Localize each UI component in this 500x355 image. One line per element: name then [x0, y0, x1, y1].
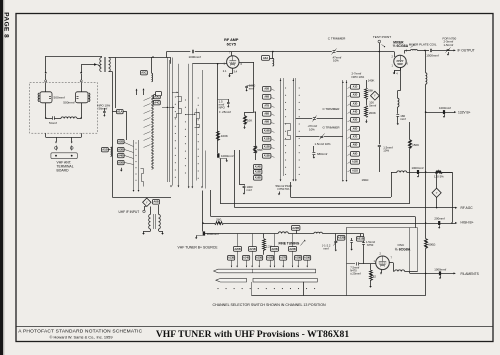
svg-text:A5D: A5D — [353, 119, 358, 122]
capacitor 1000mmf coupling — [189, 50, 202, 59]
wire terminal bus — [46, 133, 82, 137]
capacitor 1.5mmf NPO — [218, 99, 232, 114]
svg-text:mmf: mmf — [400, 117, 406, 121]
ground uhf-t left — [142, 229, 150, 235]
svg-text:HIGH B+: HIGH B+ — [461, 221, 474, 225]
label MIXER — [393, 40, 409, 48]
wire FILAMENTS — [410, 272, 456, 274]
resistor 200K — [365, 99, 376, 123]
label RF AMP 6CY5 — [224, 38, 239, 46]
ground uhf-t right — [159, 229, 164, 235]
svg-text:A19B: A19B — [304, 257, 311, 260]
svg-text:A4B: A4B — [118, 154, 123, 158]
coil A4A — [273, 52, 274, 67]
svg-text:1000mmf: 1000mmf — [207, 232, 219, 236]
label MIXER PLATE COIL — [409, 43, 437, 47]
label 140K — [368, 78, 375, 82]
svg-text:A12B: A12B — [264, 146, 270, 149]
grid capacitor 7.5mmf — [350, 262, 376, 275]
capacitor osc pad — [350, 238, 353, 251]
wire y51.5 riser — [166, 52, 168, 58]
wire uhf-left top — [45, 74, 47, 92]
switch boxes bank3 column — [263, 87, 275, 159]
capacitor 680mmf — [312, 152, 327, 158]
RF coil taps — [144, 98, 151, 148]
transformer T1 secondary — [109, 58, 111, 72]
tube V1 RF amp 6CY5 — [227, 56, 239, 68]
UHF crystal mixer right — [63, 92, 90, 105]
svg-text:A9D: A9D — [353, 153, 358, 156]
uhf if transformer secondary — [159, 205, 161, 229]
svg-text:OSC: OSC — [398, 243, 405, 247]
wafer2 lines — [189, 64, 203, 187]
wire y172 to x452 — [442, 172, 453, 222]
svg-text:3,4: 3,4 — [234, 70, 238, 74]
wire mixer-left bottom — [46, 103, 53, 119]
svg-text:UHF IF INPUT: UHF IF INPUT — [119, 210, 140, 214]
wire T1 sec bottom — [109, 72, 113, 148]
svg-text:N750 5%: N750 5% — [278, 187, 290, 191]
svg-text:A4D: A4D — [353, 111, 358, 114]
wire uhf-if bus — [112, 147, 171, 198]
switch boxes bank4 column — [348, 85, 360, 174]
svg-text:6CY5: 6CY5 — [227, 42, 236, 46]
label 2-7mmf NPO — [352, 72, 365, 79]
svg-text:82: 82 — [373, 274, 377, 278]
label 100 5mmf — [369, 101, 376, 108]
svg-text:G TRIMMER: G TRIMMER — [323, 125, 341, 129]
vertical x391 — [391, 172, 393, 197]
wire bottom bus — [252, 282, 426, 296]
label 132V B+ — [458, 111, 471, 115]
node uhf-d — [80, 72, 82, 74]
svg-text:A11B: A11B — [264, 138, 270, 141]
svg-text:A23B: A23B — [289, 248, 296, 251]
osc injection — [396, 68, 406, 126]
wafer1 contact arrow a — [162, 107, 175, 109]
resistor 150K — [409, 122, 420, 204]
switch shaft bar 2b — [253, 278, 317, 282]
trimmer capacitor C-npo — [103, 108, 106, 117]
svg-text:© Howard W. Sams & Co., Inc. 1: © Howard W. Sams & Co., Inc. 1959 — [50, 334, 113, 339]
svg-text:56K: 56K — [368, 89, 373, 93]
svg-text:½ 6CG8A: ½ 6CG8A — [393, 44, 409, 48]
label 1000mmf y168 — [412, 166, 424, 170]
svg-text:VHF TUNER B+ SOURCE: VHF TUNER B+ SOURCE — [178, 245, 219, 249]
trimmer output — [446, 48, 451, 56]
label 160 ohm — [362, 178, 370, 182]
resistor 600 ohm — [425, 223, 437, 296]
svg-text:A5B: A5B — [264, 88, 269, 91]
svg-text:500mmf: 500mmf — [63, 100, 74, 104]
svg-text:NPO 10%: NPO 10% — [352, 75, 365, 79]
switch box A4A — [262, 56, 273, 61]
wafer1 rotor profile — [175, 97, 182, 118]
resistor 2.2K — [263, 234, 272, 255]
channel switch boxes lower row — [228, 256, 311, 270]
svg-text:A2D: A2D — [353, 94, 358, 97]
resistor 82 — [369, 264, 376, 288]
svg-text:500mmf: 500mmf — [54, 95, 65, 99]
svg-text:FINE TUNING: FINE TUNING — [279, 242, 300, 246]
wire shaft to bus — [303, 282, 305, 296]
svg-text:200K: 200K — [369, 111, 376, 115]
svg-text:A10B: A10B — [264, 130, 270, 133]
label FINE TUNING — [279, 240, 306, 246]
svg-text:±.25mmf: ±.25mmf — [350, 272, 361, 276]
svg-text:1500mmf: 1500mmf — [426, 54, 439, 58]
wire uhf-left riser — [45, 56, 47, 73]
antenna wafer rotor — [133, 169, 144, 192]
wire L4 y216.5 — [211, 190, 416, 228]
wafer3 lines — [280, 78, 300, 180]
svg-text:A7B: A7B — [264, 105, 269, 108]
svg-text:A22B: A22B — [338, 236, 345, 240]
B+ coil L3 — [426, 50, 427, 223]
RF coil spring — [152, 96, 154, 170]
capacitor 1000mmf plate — [245, 84, 255, 92]
svg-text:A6B: A6B — [264, 96, 269, 99]
svg-text:1000mmf: 1000mmf — [189, 55, 202, 59]
label NPO 10% 56mmf — [98, 103, 111, 110]
crystal diamond mixer — [371, 91, 380, 100]
wafer2 bottom arrows — [188, 187, 203, 189]
svg-text:A2B: A2B — [118, 140, 123, 144]
capacitor 1500mmf — [426, 49, 439, 58]
svg-text:A6D: A6D — [353, 128, 358, 131]
tube V3 oscillator — [374, 253, 393, 270]
svg-text:5mmf: 5mmf — [369, 104, 376, 108]
node y172 — [425, 171, 427, 173]
switch box A6B — [153, 200, 160, 205]
node rf-top — [152, 56, 154, 58]
svg-text:Y: Y — [436, 191, 438, 195]
node plate-56k — [254, 111, 255, 112]
osc verticals — [410, 228, 418, 274]
svg-text:FILAMENTS: FILAMENTS — [461, 272, 480, 276]
svg-text:A1B: A1B — [102, 148, 107, 152]
label FILAMENTS — [461, 272, 480, 276]
wire grid drop — [217, 64, 219, 153]
wire plate to 10K — [245, 84, 254, 116]
test point line — [379, 52, 381, 145]
wire A1A — [112, 111, 126, 140]
wire L2 y203.7 — [220, 159, 410, 204]
svg-text:A16B: A16B — [267, 257, 274, 260]
UHF crystal mixer left — [38, 92, 65, 103]
svg-text:A15B: A15B — [256, 257, 263, 260]
resistor 10K — [243, 116, 252, 129]
svg-text:mmf: mmf — [247, 188, 253, 192]
label UHF IF INPUT — [119, 210, 146, 214]
wafer1 lines — [168, 58, 186, 186]
wire V2 plate top — [405, 50, 411, 53]
svg-text:680mmf: 680mmf — [317, 152, 328, 156]
svg-text:± .25mmf: ± .25mmf — [219, 110, 231, 114]
wire top horizontal to T1 — [46, 56, 102, 58]
svg-text:A20B: A20B — [234, 248, 241, 251]
feedthrough vhf b+ — [203, 231, 219, 236]
svg-text:VHF TUNER with UHF Provisions: VHF TUNER with UHF Provisions - WT86X81 — [156, 329, 350, 340]
wire fine tuning bus — [205, 232, 364, 234]
svg-text:A13B: A13B — [228, 257, 235, 260]
svg-text:CHANNEL SELECTOR SWITCH SHOWN: CHANNEL SELECTOR SWITCH SHOWN IN CHANNEL… — [213, 303, 326, 307]
label 1-2.2mmf — [322, 243, 331, 250]
svg-text:Y: Y — [146, 200, 148, 204]
wire V1 grid — [192, 63, 226, 65]
wafer1 contact arrow b — [172, 92, 178, 94]
wire b+ horizontal — [203, 218, 224, 225]
switch shaft bar 2a — [216, 278, 247, 282]
svg-text:A5B: A5B — [118, 161, 123, 165]
svg-text:C TRIMMER: C TRIMMER — [323, 107, 341, 111]
coupling wire y51.5 left — [167, 51, 191, 53]
switch boxes A2B-A5B column — [118, 140, 125, 165]
svg-text:IF OUTPUT: IF OUTPUT — [458, 49, 475, 53]
switch box A1B — [102, 148, 111, 152]
crystal diode diamond D1 — [143, 198, 151, 206]
feedthrough 200mmf — [434, 216, 445, 228]
svg-text:A3D: A3D — [353, 103, 358, 106]
wire drop left — [55, 137, 57, 143]
svg-text:56mmf: 56mmf — [99, 106, 108, 110]
trimmer C top — [332, 49, 342, 63]
svg-text:1000mmf: 1000mmf — [439, 106, 451, 110]
wire coil to node — [417, 50, 429, 52]
label 1.5mmf 10% — [315, 142, 332, 146]
inductor L-uhf — [54, 117, 81, 119]
node agc cross — [425, 207, 453, 224]
RF osc coil upper — [152, 57, 153, 82]
svg-text:120 5%: 120 5% — [434, 175, 444, 179]
wire agc bus y172 — [391, 171, 452, 173]
svg-text:10%: 10% — [309, 127, 315, 131]
svg-text:A1D: A1D — [353, 86, 358, 89]
ground vhf b+ — [195, 236, 203, 240]
svg-text:TEST POINT: TEST POINT — [373, 35, 391, 39]
svg-text:A7D: A7D — [353, 136, 358, 139]
wire L1 y197 — [291, 182, 392, 198]
detent dots row — [217, 288, 315, 289]
binder black edge bar — [0, 0, 3, 355]
wafer1 bottom arrows — [170, 186, 179, 188]
switch box A20B — [292, 226, 300, 234]
svg-text:560: 560 — [216, 218, 221, 222]
node V1 grid — [217, 63, 219, 65]
feedthrough 1000mmf b+ — [439, 106, 451, 118]
svg-text:A15B: A15B — [255, 171, 261, 174]
feedthrough y172 — [417, 170, 419, 178]
node mixer out — [424, 50, 426, 52]
osc plate coil — [389, 263, 417, 272]
label GO 1.5mmf — [362, 234, 375, 264]
ground feedthrough — [220, 159, 228, 163]
svg-text:A8D: A8D — [353, 144, 358, 147]
wire L3 riser — [234, 150, 236, 208]
wires bank fan — [125, 143, 134, 165]
feedthrough capacitor 1000mmf — [217, 153, 234, 158]
switch shaft bar 1 — [214, 269, 316, 273]
antenna coil L1 — [111, 147, 113, 157]
svg-text:A5C: A5C — [141, 71, 146, 75]
resistor 56K — [254, 112, 263, 160]
resistor 56K bank4 — [365, 80, 374, 100]
wire trimmer row1 — [296, 118, 343, 120]
label C TRIMMER mid — [323, 107, 341, 111]
trimmer C mid — [313, 116, 317, 122]
wafer2 rotor profile — [195, 109, 206, 189]
uhf if transformer core — [154, 214, 156, 229]
svg-text:1000mmf: 1000mmf — [221, 154, 234, 158]
node b560 — [202, 222, 204, 224]
svg-text:A20B: A20B — [292, 226, 299, 230]
wire grid bus y57 — [102, 57, 171, 64]
svg-text:2·1: 2·1 — [223, 69, 227, 73]
wire T1 sec top — [109, 58, 116, 109]
terminal jack left — [55, 145, 58, 150]
label IF OUTPUT — [458, 49, 475, 53]
feedthrough 1000mmf fil — [434, 267, 446, 279]
label .27mmf — [308, 124, 318, 131]
trimmer G — [320, 134, 325, 140]
ground antenna bank — [120, 168, 123, 172]
wire y51.5 right — [195, 51, 231, 53]
svg-text:RF AGC: RF AGC — [461, 206, 474, 210]
cathode ground osc — [380, 270, 382, 275]
svg-text:C TRIMMER: C TRIMMER — [328, 36, 346, 40]
capacitor 5mmf — [49, 116, 57, 125]
wire uhf-right top — [80, 74, 82, 92]
diamond agc — [432, 172, 441, 208]
wire HIGH B+ — [223, 222, 457, 224]
svg-text:N750: N750 — [367, 243, 374, 247]
svg-text:A22B: A22B — [271, 248, 278, 251]
contact arrows up — [136, 88, 145, 95]
wire mixer-right bottom — [81, 103, 83, 118]
svg-text:½ 6CG8A: ½ 6CG8A — [395, 248, 411, 252]
svg-text:5mmf: 5mmf — [49, 121, 57, 125]
svg-text:132V B+: 132V B+ — [458, 111, 471, 115]
svg-text:160Ω: 160Ω — [362, 178, 370, 182]
svg-text:1000mmf: 1000mmf — [434, 267, 446, 271]
svg-text:150K: 150K — [412, 143, 419, 147]
tube V1 pins — [223, 51, 243, 74]
svg-text:A3B: A3B — [118, 148, 123, 152]
capacitor 1.5mmf 10% — [378, 145, 393, 172]
svg-text:140K: 140K — [368, 78, 375, 82]
node uhf-b — [80, 117, 82, 119]
switch box A5C — [141, 71, 148, 75]
VHF ant terminal board box — [51, 153, 77, 159]
wire uhf-right to arrow — [81, 65, 94, 73]
svg-text:A17B: A17B — [280, 257, 287, 260]
terminal jack right — [70, 145, 73, 150]
svg-text:mmf: mmf — [323, 247, 329, 251]
svg-text:Y: Y — [374, 94, 376, 98]
wire trimmer row2 — [296, 136, 343, 138]
wafer4 lines — [342, 80, 347, 182]
label 56mmf P100 — [276, 184, 293, 195]
resistor 120 5% — [434, 171, 444, 179]
label OSC — [395, 243, 411, 251]
node uhf-c — [45, 72, 47, 74]
wire 680 drop — [313, 146, 315, 152]
resistor 100K — [217, 132, 228, 141]
svg-text:A21B: A21B — [357, 237, 364, 241]
transformer T1 core — [105, 57, 106, 72]
label CHANNEL SELECTOR — [213, 303, 326, 307]
node A4A — [272, 51, 274, 53]
wire V1 plate — [239, 62, 254, 84]
label TEST POINT — [373, 35, 391, 39]
wire 132V line — [425, 111, 457, 113]
osc section outline — [347, 228, 418, 296]
label G TRIMMER — [323, 125, 341, 129]
svg-text:A13B: A13B — [264, 155, 270, 158]
wire RF AGC — [235, 207, 457, 209]
svg-text:A21B: A21B — [249, 248, 256, 251]
label C TRIMMER top — [328, 36, 346, 40]
switch box A1A — [117, 110, 124, 114]
wire to IF OUTPUT — [432, 49, 456, 51]
svg-text:1000mmf: 1000mmf — [412, 166, 424, 170]
label VHF TUNER B+ SOURCE — [178, 245, 219, 249]
svg-text:A1A: A1A — [117, 110, 122, 114]
ground V2 cathode — [393, 68, 401, 76]
UHF converter dashed enclosure — [30, 83, 98, 134]
svg-text:NPO: NPO — [219, 106, 226, 110]
ground V1 cathode — [228, 68, 233, 77]
svg-text:A4C: A4C — [154, 101, 159, 105]
svg-text:A10D: A10D — [352, 161, 358, 164]
switch box A22B — [338, 236, 345, 241]
node uhf-a — [45, 117, 47, 119]
svg-text:10%: 10% — [333, 59, 339, 63]
svg-text:10%: 10% — [383, 148, 389, 152]
wire V1 top pin — [231, 52, 233, 56]
svg-text:BOARD: BOARD — [57, 169, 70, 173]
switch box A2D — [156, 92, 162, 96]
svg-text:100K: 100K — [221, 134, 228, 138]
svg-text:10K: 10K — [247, 118, 252, 122]
test point TP1 — [378, 40, 385, 52]
label RF AGC — [461, 206, 474, 210]
wire drop right — [71, 137, 73, 143]
wire b+ drop — [202, 191, 204, 232]
wafer2 contact arrow — [185, 113, 196, 115]
svg-text:1-5mmf: 1-5mmf — [444, 43, 454, 47]
tube V2 mixer — [392, 50, 409, 68]
switch box A21B — [357, 234, 365, 242]
svg-text:200mmf: 200mmf — [434, 216, 445, 220]
svg-text:56K: 56K — [257, 148, 262, 152]
wire diamond stem — [144, 206, 146, 210]
wafer3 bottom arrows — [280, 180, 297, 182]
capacitor 1000mmf agc — [239, 150, 253, 195]
wire y51.5 to mixer — [231, 52, 394, 58]
svg-text:A4A: A4A — [263, 56, 268, 60]
label FOR N750 — [443, 36, 457, 46]
svg-text:PAGE 8: PAGE 8 — [3, 12, 10, 38]
svg-text:A18B: A18B — [295, 257, 302, 260]
switch boxes bank3 lower — [254, 165, 262, 181]
arrow into T1 — [94, 63, 101, 66]
svg-text:A11D: A11D — [352, 170, 358, 173]
svg-text:600Ω: 600Ω — [428, 242, 436, 246]
switch box A4C — [154, 101, 161, 105]
transformer T1 primary — [100, 56, 102, 72]
svg-text:A16B: A16B — [255, 177, 261, 180]
